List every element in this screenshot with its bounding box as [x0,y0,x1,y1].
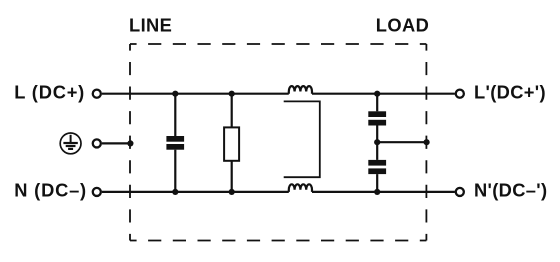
resistor R branch wires [231,94,233,128]
wire PE terminal to enclosure [102,142,130,144]
junction L-CX [172,91,178,97]
junction L-R [229,91,235,97]
capacitor CY1 plates [368,111,386,117]
chassis enclosure dashed box [130,44,426,241]
svg-text:N'(DC–'): N'(DC–') [474,180,547,201]
junction CY midpoint [374,139,380,145]
common-mode choke winding top [289,86,312,94]
capacitor CX branch wires [174,94,176,136]
svg-text:LINE: LINE [129,14,172,35]
common-mode choke winding bottom [289,184,312,192]
terminal L (DC+) [93,90,101,98]
common-mode choke core [284,101,320,177]
protective earth symbol [60,133,81,154]
capacitor CX plates [166,136,184,142]
capacitor CY1 branch wires [376,94,378,112]
junction N-CY2 [374,189,380,195]
svg-text:L (DC+): L (DC+) [14,81,85,102]
terminal N' (DC-') [456,188,464,196]
junction N-CX [172,189,178,195]
terminal N (DC-) [93,188,101,196]
svg-text:N (DC–): N (DC–) [14,180,87,201]
resistor R body [224,127,239,160]
wire L line right segment [312,93,455,95]
terminal L' (DC+') [456,90,464,98]
terminal PE [93,139,101,147]
junction PE-enclosure [127,140,133,146]
capacitor CY2 branch wires [376,142,378,160]
wire N line left segment [102,191,289,193]
junction L-CY1 [374,91,380,97]
wire Y-cap midpoint to enclosure [377,141,426,143]
svg-text:LOAD: LOAD [376,14,429,35]
wire L line left segment [102,93,289,95]
junction N-R [229,189,235,195]
junction CY midpoint-enclosure [424,139,430,145]
capacitor CY2 plates [368,160,386,166]
svg-text:L'(DC+'): L'(DC+') [474,81,546,102]
wire N line right segment [312,191,455,193]
